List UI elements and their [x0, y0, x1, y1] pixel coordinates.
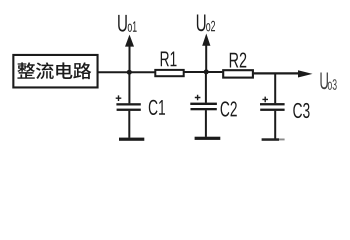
label R1 — [161, 52, 177, 67]
node B junction dot — [204, 69, 209, 74]
label C1 — [149, 100, 165, 115]
wire: box to node A — [98, 71, 155, 73]
arrow Uo3 (right, output) — [298, 70, 313, 77]
ground bar C2 — [195, 137, 221, 140]
label C3 — [293, 103, 309, 118]
label Uo2 — [197, 14, 215, 31]
label Uo3 — [320, 72, 336, 89]
wire: R1 to node B — [185, 71, 223, 73]
ground bar C3 — [262, 138, 285, 141]
arrow Uo1 (up) — [125, 35, 134, 73]
capacitor C3 — [260, 73, 285, 138]
label Uo1 — [118, 15, 136, 32]
rectifier block box — [13, 55, 97, 87]
resistor R1 — [155, 70, 183, 76]
label R2 — [230, 52, 247, 67]
wire: R2 to output arrow — [254, 72, 299, 74]
resistor R2 — [223, 70, 253, 77]
capacitor C1 — [116, 72, 141, 138]
node A junction dot — [127, 70, 132, 75]
capacitor C2 — [190, 72, 217, 137]
label C2 — [221, 101, 237, 116]
ground bar C1 — [119, 138, 144, 141]
label 整流电路 — [17, 62, 91, 79]
arrow Uo2 (up) — [202, 34, 210, 72]
